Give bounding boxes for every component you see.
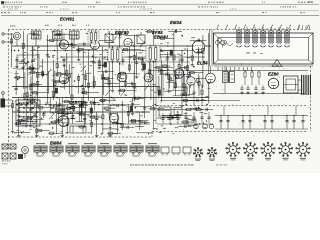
wire	[14, 132, 30, 134]
wire	[169, 115, 185, 117]
wire	[201, 84, 203, 106]
resistor R142	[70, 107, 74, 109]
tube V10 EM84 target	[70, 126, 86, 133]
junction	[251, 70, 252, 71]
ground	[262, 91, 264, 93]
chassis border right (dashed)	[310, 66, 312, 132]
wire	[93, 76, 95, 88]
wire	[15, 70, 17, 95]
resistor R44	[37, 81, 39, 85]
ground	[96, 134, 98, 136]
junction	[57, 45, 58, 46]
tube socket S7 (flat view)	[130, 146, 136, 152]
wire	[26, 34, 28, 101]
capacitor C64	[25, 103, 28, 105]
ground	[191, 63, 193, 64]
wire	[56, 47, 58, 74]
wire	[106, 59, 119, 61]
junction	[249, 115, 250, 116]
trimmer T2 on chassis	[220, 40, 224, 44]
junction	[23, 97, 24, 98]
electrolytic capacitor CE1	[104, 62, 107, 67]
capacitor C304	[246, 87, 249, 89]
svg-text:EZ80: EZ80	[268, 72, 279, 77]
capacitor C107	[172, 116, 174, 119]
ground	[255, 91, 257, 93]
resistor R410	[186, 108, 191, 110]
wire	[158, 109, 170, 111]
IF transformer IFT2	[146, 46, 160, 61]
wire	[37, 47, 39, 104]
connector strip E	[18, 154, 23, 159]
resistor R15	[82, 89, 84, 94]
capacitor C731	[176, 117, 179, 119]
wire	[24, 72, 26, 100]
junction	[201, 109, 202, 110]
wire	[286, 116, 288, 130]
electrolytic capacitor CE4	[90, 108, 93, 113]
IF can box 1	[105, 34, 113, 43]
capacitor C702	[241, 120, 244, 122]
power section divider (dashed)	[152, 105, 306, 107]
capacitor C119	[130, 82, 132, 85]
capacitor C704	[263, 120, 266, 122]
wire	[18, 98, 20, 135]
connector strip A	[2, 144, 8, 149]
scan speckle	[11, 30, 310, 136]
resistor R301	[251, 72, 253, 77]
header text row 2	[3, 6, 296, 9]
tube base diagram 3	[264, 146, 272, 154]
wire	[58, 105, 60, 122]
capacitor C79	[116, 122, 119, 124]
section divider wire 2	[155, 46, 157, 124]
tube V15	[59, 74, 69, 84]
wire	[185, 112, 187, 123]
wire	[60, 118, 75, 120]
wire	[47, 35, 49, 104]
wire	[96, 112, 98, 134]
header text row 3	[1, 11, 305, 14]
junction	[37, 56, 38, 57]
header text row 2b	[8, 8, 236, 11]
capacitor C35	[180, 58, 183, 60]
wire	[18, 62, 27, 64]
ground	[32, 66, 34, 68]
wire	[181, 51, 183, 104]
capacitor C701	[226, 120, 229, 122]
capacitor C67	[42, 113, 45, 115]
resistor R81	[127, 111, 129, 115]
resistor R403	[201, 90, 203, 95]
wire	[162, 71, 164, 97]
wire	[87, 115, 99, 117]
coil can L4 on chassis	[262, 30, 265, 33]
wire	[33, 119, 44, 121]
resistor R34	[178, 64, 180, 68]
wire	[293, 116, 295, 130]
resistor R31	[161, 70, 163, 74]
resistor R101	[67, 107, 71, 109]
capacitor C604	[78, 111, 81, 113]
antenna coil L10	[32, 31, 42, 39]
wire	[42, 59, 44, 78]
wire	[133, 71, 135, 99]
junction	[158, 86, 159, 87]
socket terminal block 1	[161, 147, 169, 153]
wire	[63, 105, 65, 117]
wire	[162, 114, 181, 116]
tube V1 grid wire	[63, 33, 65, 40]
capacitor C734	[200, 116, 203, 118]
tube socket S2 (flat view)	[50, 146, 56, 152]
resistor R62	[12, 104, 14, 108]
resistor R39	[202, 48, 204, 53]
wire	[213, 93, 305, 95]
resistor R40	[208, 79, 210, 83]
junction dots	[14, 45, 208, 125]
wire	[14, 77, 25, 79]
wire	[12, 101, 14, 130]
wire	[258, 71, 260, 73]
svg-text:EM84: EM84	[50, 141, 62, 146]
chassis border bottom-left (dashed)	[8, 136, 152, 138]
socket terminal block 3	[183, 147, 191, 153]
capacitor C70	[61, 110, 64, 112]
tube base diagram 5	[299, 146, 307, 154]
wire	[85, 71, 87, 88]
capacitor C600	[58, 103, 61, 105]
wire	[247, 85, 249, 88]
wire	[242, 116, 244, 130]
wire	[160, 70, 308, 72]
junction	[88, 50, 89, 51]
capacitor C20	[108, 50, 111, 52]
wire	[56, 39, 58, 46]
junction	[66, 97, 67, 98]
capacitor C71	[66, 123, 69, 125]
tube base diagram (small) 1	[196, 150, 201, 155]
junction	[227, 115, 228, 116]
resistor R611	[91, 116, 95, 118]
wire	[100, 99, 107, 101]
resistor R53	[119, 74, 121, 78]
wire	[152, 53, 170, 55]
capacitor C114	[165, 73, 167, 76]
tube socket S1 (flat view)	[34, 146, 40, 152]
ferrite antenna	[1, 99, 6, 108]
resistor R610	[60, 109, 64, 111]
wire	[28, 101, 36, 103]
wire	[37, 72, 39, 102]
section divider wire	[153, 30, 155, 130]
ground	[18, 134, 20, 136]
wire	[224, 83, 226, 94]
wire	[255, 85, 257, 88]
rf coil L11	[53, 31, 63, 39]
wire	[27, 67, 36, 69]
wire	[127, 83, 137, 85]
resistor R21	[112, 55, 114, 60]
capacitor C2	[15, 59, 18, 61]
wire	[136, 132, 152, 134]
resistor R36	[186, 65, 188, 70]
capacitor C402	[192, 91, 195, 93]
header text row 1	[3, 1, 309, 4]
wire	[98, 40, 112, 42]
wire	[106, 52, 124, 54]
capacitor C729	[161, 117, 164, 119]
junction	[109, 86, 110, 87]
wire	[89, 101, 99, 103]
wire	[102, 78, 113, 80]
capacitor C102	[101, 64, 103, 67]
header top rule	[1, 3, 319, 5]
wire	[68, 107, 87, 109]
resistor R621	[38, 129, 42, 131]
wire	[162, 113, 164, 124]
resistor R52	[108, 81, 110, 85]
wire	[66, 105, 68, 135]
wire	[180, 93, 194, 95]
ground	[61, 134, 63, 136]
junction	[208, 97, 209, 98]
wire	[36, 73, 47, 75]
wire	[35, 30, 37, 32]
resistor R77	[102, 115, 104, 119]
trimmer arrows	[22, 30, 177, 120]
resistor R300	[244, 72, 246, 77]
wire	[196, 77, 207, 79]
wire	[161, 60, 163, 103]
capacitor C65	[29, 108, 32, 110]
tube V7	[174, 69, 184, 79]
wire	[173, 86, 189, 88]
wire	[167, 90, 186, 92]
wire	[119, 65, 121, 95]
tube V4 EBC81	[192, 41, 204, 53]
ground	[16, 65, 18, 67]
tube base diagram 1	[229, 146, 237, 154]
tube V3 EF85	[124, 38, 132, 46]
wire	[177, 113, 179, 124]
coil can L1 on chassis	[238, 30, 241, 33]
wire	[249, 116, 251, 130]
tube V5	[117, 72, 127, 82]
capacitor C705	[270, 120, 273, 122]
osc coil L12	[70, 31, 80, 39]
wire	[121, 49, 141, 51]
wire	[55, 101, 57, 134]
wire	[182, 71, 184, 96]
wire	[97, 70, 114, 72]
wire	[101, 47, 103, 100]
capacitor C73	[80, 104, 83, 106]
wire	[118, 33, 120, 65]
resistor R308	[176, 74, 178, 78]
wire	[54, 71, 56, 98]
ground	[30, 124, 32, 126]
wire	[112, 122, 121, 124]
resistor R93	[182, 93, 186, 95]
wire	[267, 106, 269, 116]
resistor R96	[160, 37, 164, 39]
resistor R131	[105, 107, 109, 109]
wire	[161, 116, 181, 118]
wire	[21, 119, 28, 121]
resistor R7	[42, 71, 44, 75]
bottom-left note	[2, 161, 10, 165]
capacitor C17	[92, 60, 95, 62]
wire	[48, 39, 62, 41]
aerial terminal 1	[2, 33, 4, 35]
capacitor C63	[17, 109, 20, 111]
tube base diagram (small) 2	[210, 150, 215, 155]
signal bus wire	[60, 56, 205, 58]
wire	[89, 116, 101, 118]
socket circle 3	[209, 124, 213, 128]
cathode bus wire	[40, 61, 190, 63]
resistor R411	[196, 108, 201, 110]
IF transformer IFT3	[88, 31, 99, 42]
wire	[167, 117, 179, 119]
dial cord pulley	[217, 38, 221, 42]
socket circle	[203, 124, 208, 129]
tone network box 2	[174, 108, 182, 115]
wire	[211, 30, 213, 67]
resistor R42	[24, 93, 26, 97]
resistor R105	[64, 100, 68, 102]
resistor R116	[55, 81, 59, 83]
wire	[107, 132, 121, 134]
wire	[35, 39, 37, 46]
capacitor C32	[166, 56, 169, 58]
resistor R124	[157, 49, 161, 51]
IF transformer IFT1	[108, 48, 122, 62]
ground	[25, 124, 27, 126]
wire	[66, 53, 68, 77]
wire	[73, 105, 75, 113]
variable capacitor CV2	[31, 59, 35, 61]
svg-text:EM34: EM34	[170, 20, 182, 25]
resistor R75	[91, 122, 93, 126]
capacitor C136	[144, 121, 146, 124]
wire	[73, 39, 75, 46]
junction	[242, 115, 243, 116]
resistor R45	[54, 82, 56, 86]
resistor R109	[78, 48, 82, 50]
resistor R69	[55, 108, 57, 112]
capacitor C144	[32, 32, 34, 35]
B+ bus wire	[12, 45, 211, 47]
resistor R98	[32, 92, 36, 94]
resistor R24	[128, 65, 130, 70]
tube V8 EABC80	[58, 116, 69, 127]
wire	[164, 90, 172, 92]
wire	[175, 115, 192, 117]
wire	[56, 30, 58, 32]
wire	[29, 84, 42, 86]
wire	[99, 100, 116, 102]
coil can L5 on chassis	[270, 30, 273, 33]
wire	[176, 74, 189, 76]
electrolytic capacitor CE2	[143, 64, 146, 69]
wire	[78, 104, 88, 106]
capacitor C138	[83, 42, 85, 45]
tube V9	[109, 113, 119, 123]
resistor R122	[31, 71, 35, 73]
tube base diagram 2	[247, 146, 255, 154]
wire	[78, 105, 80, 122]
resistor R16	[87, 83, 89, 87]
wire	[144, 62, 146, 99]
wire	[50, 121, 60, 123]
af bus wire	[14, 123, 150, 125]
wire	[188, 72, 203, 74]
wire	[102, 101, 104, 134]
junction	[93, 56, 94, 57]
ground	[37, 104, 39, 106]
junction	[167, 45, 168, 46]
wire	[202, 35, 204, 87]
capacitor C608	[71, 116, 74, 118]
capacitor C137	[184, 66, 186, 69]
resistor R25	[133, 56, 135, 60]
wire	[80, 101, 82, 112]
resistor R129	[138, 57, 142, 59]
capacitor C26	[135, 61, 138, 63]
ground	[247, 91, 249, 93]
wire	[264, 116, 266, 130]
filter choke laminations	[301, 75, 303, 95]
wire	[84, 112, 86, 127]
resistor R28	[148, 70, 150, 74]
wire	[198, 76, 200, 96]
tube base diagram 4	[282, 146, 290, 154]
screen bus wire	[30, 50, 205, 52]
dial scale marks inside box	[246, 52, 250, 55]
resistor R113	[28, 117, 32, 119]
wire	[103, 107, 116, 109]
wire	[43, 112, 45, 118]
resistor R97	[57, 33, 61, 35]
ground	[80, 112, 82, 114]
resistor R108	[131, 119, 135, 121]
capacitor C46	[63, 81, 66, 83]
resistor R99	[29, 67, 33, 69]
ground	[136, 75, 138, 77]
wire	[135, 125, 144, 127]
wire	[136, 57, 145, 59]
tone network box	[159, 107, 171, 116]
wire	[16, 120, 25, 122]
header mid rule	[1, 10, 319, 12]
chassis pin ticks	[217, 67, 219, 71]
resistor R128	[120, 89, 124, 91]
wire	[181, 121, 194, 123]
capacitor C730	[168, 117, 171, 119]
resistor R126	[120, 72, 124, 74]
tube V2 EBF80	[91, 41, 100, 50]
resistor R600	[56, 120, 60, 122]
chassis border step (dashed)	[151, 132, 153, 138]
resistor R12	[66, 71, 68, 76]
capacitor C95	[196, 99, 198, 102]
junction	[149, 50, 150, 51]
heater bus wire	[12, 97, 208, 99]
wire	[198, 74, 200, 88]
resistor R55	[133, 84, 135, 88]
